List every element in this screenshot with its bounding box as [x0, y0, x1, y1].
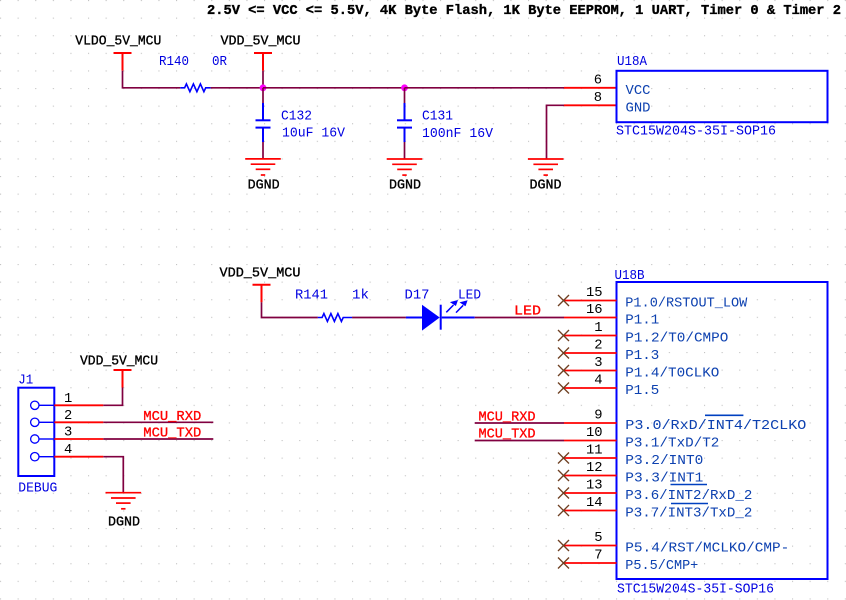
- node junction at C131: [401, 84, 408, 91]
- wire MCU_RXD to pin 9: [475, 422, 564, 424]
- svg-text:13: 13: [586, 479, 603, 494]
- svg-text:DGND: DGND: [530, 179, 562, 194]
- pin 4 stub: [564, 387, 617, 389]
- wire D17 to pin 16: [475, 317, 564, 319]
- svg-text:STC15W204S-35I-SOP16: STC15W204S-35I-SOP16: [617, 583, 774, 598]
- svg-text:U18B: U18B: [615, 269, 645, 284]
- capacitor C132: [256, 103, 271, 142]
- svg-text:P5.4/RST/MCLKO/CMP-: P5.4/RST/MCLKO/CMP-: [625, 540, 789, 556]
- svg-text:MCU_RXD: MCU_RXD: [143, 410, 201, 425]
- svg-text:U18A: U18A: [617, 55, 648, 70]
- pin 10 stub: [564, 440, 617, 442]
- no-ERC cross pin 3: [558, 365, 569, 376]
- wire MCU_TXD to pin 10: [475, 440, 564, 442]
- svg-text:P1.3: P1.3: [625, 348, 659, 364]
- no-ERC cross pin 7: [558, 558, 569, 569]
- svg-text:VDD_5V_MCU: VDD_5V_MCU: [220, 266, 301, 281]
- no-ERC cross pin 2: [558, 348, 569, 359]
- wire J1 pin4 to ground: [103, 457, 123, 493]
- pin 8 stub U18A: [564, 104, 617, 106]
- svg-text:11: 11: [586, 444, 603, 459]
- capacitor C131: [397, 103, 412, 142]
- wire J1 pin1 to VDD: [103, 388, 122, 406]
- svg-text:4: 4: [64, 443, 72, 458]
- svg-text:J1: J1: [18, 373, 33, 388]
- svg-text:10uF 16V: 10uF 16V: [282, 127, 346, 142]
- pin 3 lead J1: [39, 438, 54, 440]
- svg-text:P1.1: P1.1: [625, 312, 659, 328]
- wire C131 upper: [404, 88, 406, 103]
- svg-text:VLDO_5V_MCU: VLDO_5V_MCU: [75, 35, 161, 50]
- IC U18B box: [617, 282, 828, 579]
- pin 12 stub: [564, 475, 617, 477]
- svg-text:R141: R141: [295, 288, 328, 303]
- svg-text:9: 9: [594, 409, 602, 424]
- pin 13 stub: [564, 492, 617, 494]
- svg-text:P3.2/INT0: P3.2/INT0: [625, 453, 703, 469]
- svg-text:14: 14: [586, 496, 603, 511]
- svg-text:1k: 1k: [352, 287, 369, 303]
- svg-text:LED: LED: [514, 305, 541, 320]
- underline INT2: [671, 503, 708, 505]
- svg-text:10: 10: [586, 426, 603, 441]
- svg-text:5: 5: [594, 531, 602, 546]
- svg-text:VDD_5V_MCU: VDD_5V_MCU: [80, 355, 158, 370]
- svg-text:P5.5/CMP+: P5.5/CMP+: [625, 558, 698, 574]
- no-ERC cross pin 15: [558, 295, 569, 306]
- pin 2 lead J1: [39, 421, 54, 423]
- svg-text:P1.4/T0CLKO: P1.4/T0CLKO: [625, 365, 719, 381]
- svg-text:15: 15: [586, 286, 603, 301]
- svg-text:DEBUG: DEBUG: [18, 482, 57, 497]
- svg-text:2.5V <= VCC <= 5.5V, 4K Byte F: 2.5V <= VCC <= 5.5V, 4K Byte Flash, 1K B…: [207, 3, 841, 19]
- svg-text:1: 1: [594, 321, 602, 336]
- no-ERC cross pin 1: [558, 330, 569, 341]
- node junction at C132: [260, 84, 267, 91]
- svg-text:P1.0/RSTOUT_LOW: P1.0/RSTOUT_LOW: [625, 295, 747, 311]
- power flag VDD_5V_MCU at J1: [114, 370, 132, 388]
- op-amp U18A box: [617, 71, 828, 122]
- svg-text:P1.5: P1.5: [625, 383, 659, 399]
- wire U18A GND to ground: [547, 105, 565, 159]
- svg-text:C131: C131: [422, 109, 453, 124]
- svg-text:16: 16: [586, 303, 603, 318]
- wire junction to junction C131: [263, 87, 405, 89]
- wire C132 lower: [262, 142, 264, 159]
- svg-text:12: 12: [586, 461, 603, 476]
- svg-text:R140: R140: [159, 55, 189, 70]
- svg-text:P3.6/INT2/RxD_2: P3.6/INT2/RxD_2: [625, 488, 752, 504]
- svg-text:GND: GND: [626, 100, 651, 116]
- ground DGND under U18A: [528, 159, 564, 175]
- wire R140 to junction: [211, 87, 263, 89]
- connector J1 box: [18, 388, 54, 476]
- overline INT4: [705, 414, 743, 416]
- pin 11 stub: [564, 457, 617, 459]
- wire J1 pin3 MCU_TXD: [103, 438, 213, 440]
- svg-text:2: 2: [64, 409, 72, 424]
- pin 4 circle J1: [31, 453, 39, 461]
- svg-text:DGND: DGND: [389, 179, 421, 194]
- svg-text:D17: D17: [405, 288, 430, 303]
- pin 9 stub: [564, 422, 617, 424]
- svg-text:100nF 16V: 100nF 16V: [422, 127, 494, 142]
- wire C132 upper: [262, 88, 264, 103]
- no-ERC cross pin 4: [558, 383, 569, 394]
- pin 7 stub: [564, 562, 617, 564]
- svg-text:3: 3: [594, 356, 602, 371]
- svg-text:P1.2/T0/CMPO: P1.2/T0/CMPO: [625, 330, 728, 346]
- wire J1 pin2 MCU_RXD: [103, 421, 213, 423]
- power flag VDD_5V_MCU mid: [253, 285, 271, 303]
- svg-text:VDD_5V_MCU: VDD_5V_MCU: [221, 35, 301, 50]
- pin 2 circle J1: [31, 418, 39, 426]
- svg-text:C132: C132: [281, 109, 312, 124]
- svg-text:DGND: DGND: [248, 179, 280, 194]
- wire R141 to D17: [352, 317, 406, 319]
- pin 6 stub U18A: [564, 87, 617, 89]
- ground DGND at J1: [106, 493, 142, 509]
- svg-text:7: 7: [594, 549, 602, 564]
- svg-text:DGND: DGND: [108, 516, 140, 531]
- svg-text:4: 4: [594, 374, 602, 389]
- pin 1 lead J1: [39, 404, 54, 406]
- no-ERC cross pin 12: [558, 470, 569, 481]
- resistor R141: [318, 314, 352, 322]
- svg-text:0R: 0R: [212, 55, 227, 70]
- pin 15 stub: [564, 300, 617, 302]
- ground DGND under C131: [387, 159, 423, 175]
- wire C131 lower: [404, 142, 406, 159]
- wire VLDO stem to net: [123, 71, 181, 88]
- power flag VLDO_5V_MCU: [114, 53, 132, 71]
- no-ERC cross pin 13: [558, 488, 569, 499]
- pin 3 stub: [564, 370, 617, 372]
- underline INT1: [671, 484, 708, 486]
- svg-text:MCU_TXD: MCU_TXD: [479, 427, 536, 442]
- svg-text:P3.1/TxD/T2: P3.1/TxD/T2: [625, 435, 719, 451]
- svg-text:P3.0/RxD/INT4/T2CLKO: P3.0/RxD/INT4/T2CLKO: [625, 418, 806, 434]
- svg-text:MCU_TXD: MCU_TXD: [143, 427, 201, 442]
- pin 14 stub: [564, 510, 617, 512]
- svg-text:1: 1: [64, 392, 72, 407]
- svg-text:LED: LED: [458, 288, 481, 303]
- no-ERC cross pin 14: [558, 505, 569, 516]
- svg-text:VCC: VCC: [626, 83, 651, 99]
- svg-text:P3.7/INT3/TxD_2: P3.7/INT3/TxD_2: [625, 505, 752, 521]
- no-ERC cross pin 5: [558, 540, 569, 551]
- power flag VDD_5V_MCU top: [254, 53, 272, 71]
- wire junction C131 to U18A pin 6: [405, 87, 565, 89]
- pin 3 circle J1: [31, 435, 39, 443]
- pin 1 circle J1: [31, 401, 39, 409]
- svg-text:STC15W204S-35I-SOP16: STC15W204S-35I-SOP16: [616, 124, 776, 139]
- diode D17 LED: [406, 300, 475, 331]
- ground DGND under C132: [245, 159, 281, 175]
- pin 2 stub: [564, 352, 617, 354]
- resistor R140: [180, 84, 210, 92]
- svg-text:6: 6: [594, 74, 602, 89]
- svg-text:2: 2: [594, 339, 602, 354]
- pin 16 stub: [564, 317, 617, 319]
- pin 1 stub: [564, 335, 617, 337]
- svg-text:MCU_RXD: MCU_RXD: [479, 410, 536, 425]
- svg-text:3: 3: [64, 426, 72, 441]
- wire VDD mid to R141: [262, 302, 318, 317]
- wire VDD stem down to junction: [262, 71, 264, 88]
- pin 5 stub: [564, 545, 617, 547]
- pin 4 lead J1: [39, 456, 54, 458]
- no-ERC cross pin 11: [558, 453, 569, 464]
- svg-text:8: 8: [594, 91, 602, 106]
